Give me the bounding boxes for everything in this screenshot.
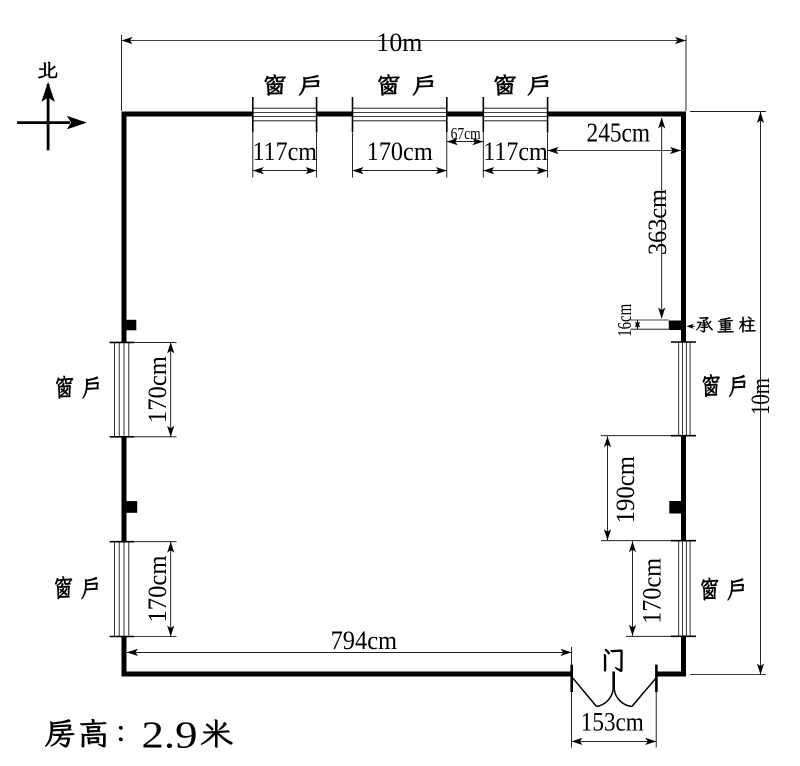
dim 363cm: line with arrows xyxy=(658,118,665,319)
label 窗户 (window top-2) xyxy=(378,74,433,95)
dim 10m right: extension lines xyxy=(690,112,766,675)
north arrow vertical (points north) xyxy=(41,82,55,150)
leader arrow to load-bearing column xyxy=(686,324,695,329)
dim 170cm (window top-2): extension lines xyxy=(353,133,447,178)
svg-text:363cm: 363cm xyxy=(643,189,672,255)
window right-lower (170cm) xyxy=(671,541,696,637)
dim 117cm (window top-1): extension lines xyxy=(253,133,317,178)
door label 门 xyxy=(604,649,623,672)
dim 10m top: extension lines xyxy=(122,35,687,111)
svg-text:153cm: 153cm xyxy=(581,708,644,737)
dim 153cm: extension lines xyxy=(572,647,657,748)
dim 245cm: line with arrows xyxy=(548,147,681,154)
window top-3 (117cm) xyxy=(483,97,547,133)
dim 170cm (window left-lower): line with arrows xyxy=(167,542,174,637)
dim 170cm (window right-lower): extension line bottom xyxy=(626,635,671,637)
note 房高：2.9米 (room height 2.9 m) xyxy=(45,714,232,756)
dim 153cm: line with arrows xyxy=(572,738,657,745)
dim 170cm (window left-lower): extension lines xyxy=(134,542,176,637)
column right-lower xyxy=(669,501,686,514)
svg-text:10m: 10m xyxy=(746,378,775,415)
svg-text:794cm: 794cm xyxy=(331,626,397,655)
dim 16cm: double arrow xyxy=(635,320,640,329)
window left-upper (170cm) xyxy=(110,342,135,436)
door leaf right xyxy=(632,678,656,707)
window top-2 (170cm) xyxy=(353,97,447,133)
window right-upper (170cm) xyxy=(671,342,696,436)
door leaf left xyxy=(573,678,597,707)
column right-upper (load-bearing, labelled) xyxy=(669,321,686,331)
dim 10m top: dimension line with arrows xyxy=(122,37,687,44)
door swing arc right xyxy=(614,689,632,706)
dim 190cm: extension lines xyxy=(601,436,671,541)
dim 117cm (window top-1): line with arrows xyxy=(253,167,317,174)
dim 170cm (window left-upper): extension lines xyxy=(134,342,176,436)
label 窗户 (window left-lower) xyxy=(55,576,98,599)
svg-text:67cm: 67cm xyxy=(451,124,481,143)
dim 170cm (window right-lower): line with arrows xyxy=(629,541,636,636)
label 窗户 (window left-upper) xyxy=(56,376,99,399)
wall top (north), with window gaps xyxy=(122,112,687,117)
svg-text:117cm: 117cm xyxy=(252,137,317,166)
dim 117cm (window top-3): extension lines xyxy=(483,133,547,178)
svg-text:117cm: 117cm xyxy=(483,137,548,166)
svg-text:2.9: 2.9 xyxy=(142,714,198,756)
door swing arc left xyxy=(597,689,614,706)
svg-text:16cm: 16cm xyxy=(614,303,636,336)
label 窗户 (window top-1) xyxy=(265,74,320,95)
door jamb left xyxy=(570,665,573,692)
north label 北 xyxy=(38,62,57,78)
dim 170cm (window top-2): line with arrows xyxy=(353,167,447,174)
svg-text:190cm: 190cm xyxy=(611,456,640,523)
column left-upper xyxy=(122,320,137,331)
door center post xyxy=(612,672,615,690)
window left-lower (170cm) xyxy=(110,542,135,637)
label 窗户 (window top-3) xyxy=(495,74,549,95)
wall left (west), with window gaps xyxy=(122,112,127,677)
column left-lower xyxy=(122,501,138,513)
dim 10m right: line with arrows xyxy=(757,112,764,675)
dim 190cm: line with arrows xyxy=(604,436,611,540)
svg-text:170cm: 170cm xyxy=(143,356,172,423)
label 承重柱 (load-bearing column) xyxy=(696,316,756,332)
dim 794cm: line with arrows xyxy=(127,649,572,656)
door jamb right xyxy=(655,665,658,692)
dim 16cm: extension lines xyxy=(631,320,669,329)
label 窗户 (window right-lower) xyxy=(701,578,744,601)
svg-text:170cm: 170cm xyxy=(143,556,172,623)
dim 170cm (window left-upper): line with arrows xyxy=(167,342,174,436)
north arrow horizontal (points east) xyxy=(17,116,87,130)
wall bottom (south), with door opening xyxy=(122,672,687,677)
label 窗户 (window right-upper) xyxy=(703,374,746,397)
svg-text:170cm: 170cm xyxy=(638,558,667,624)
window top-1 (117cm) xyxy=(253,97,317,133)
dim 67cm (gap between top windows 2 and 3): line with arrows xyxy=(447,138,484,145)
svg-text:170cm: 170cm xyxy=(367,137,433,166)
svg-text:245cm: 245cm xyxy=(587,118,651,148)
wall right (east), with window gaps xyxy=(681,112,686,677)
dim 117cm (window top-3): line with arrows xyxy=(483,167,547,174)
svg-text:10m: 10m xyxy=(376,28,422,57)
